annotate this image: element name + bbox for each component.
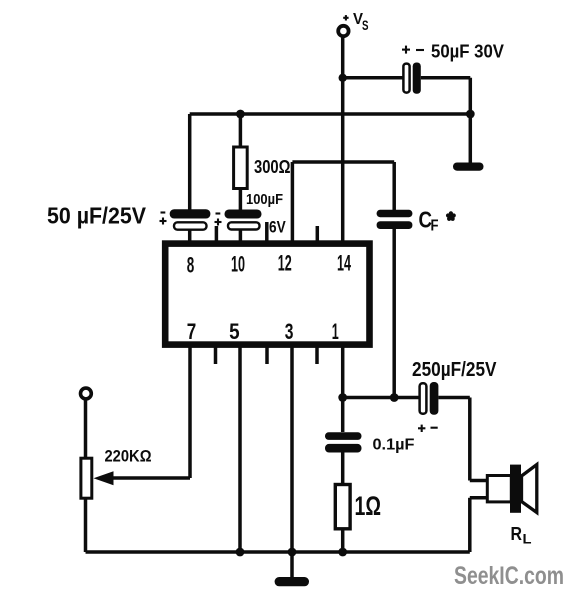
svg-text:7: 7	[187, 319, 197, 344]
svg-text:12: 12	[278, 251, 292, 276]
svg-text:220KΩ: 220KΩ	[105, 447, 152, 466]
svg-text:6V: 6V	[269, 219, 286, 237]
svg-text:10: 10	[231, 252, 245, 277]
svg-text:50 µF/25V: 50 µF/25V	[47, 203, 147, 229]
svg-text:3: 3	[285, 319, 294, 344]
svg-text:14: 14	[337, 251, 351, 276]
svg-text:R: R	[511, 524, 523, 544]
svg-text:300Ω: 300Ω	[254, 157, 291, 177]
svg-text:50µF 30V: 50µF 30V	[431, 41, 505, 62]
svg-text:0.1µF: 0.1µF	[373, 437, 415, 454]
svg-text:5: 5	[229, 319, 240, 344]
svg-text:250µF/25V: 250µF/25V	[412, 359, 497, 381]
svg-text:8: 8	[187, 253, 195, 278]
svg-text:L: L	[523, 531, 532, 547]
svg-text:SeekIC.com: SeekIC.com	[454, 562, 564, 590]
svg-text:1: 1	[332, 319, 339, 344]
svg-text:F: F	[431, 218, 439, 235]
svg-text:100µF: 100µF	[246, 192, 283, 208]
svg-text:S: S	[362, 18, 369, 33]
svg-text:1Ω: 1Ω	[355, 491, 382, 521]
